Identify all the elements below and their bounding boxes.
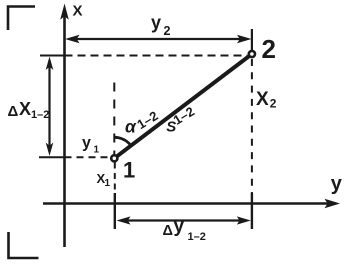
- svg-text:1: 1: [123, 158, 135, 183]
- svg-text:y: y: [174, 216, 185, 237]
- svg-text:X: X: [256, 89, 269, 110]
- svg-text:Δ: Δ: [8, 103, 19, 120]
- svg-text:1–2: 1–2: [188, 231, 206, 243]
- svg-text:Δ: Δ: [163, 223, 173, 239]
- svg-text:1: 1: [94, 145, 100, 156]
- svg-text:X: X: [73, 3, 83, 20]
- svg-text:2: 2: [270, 97, 277, 111]
- svg-text:1: 1: [105, 178, 111, 189]
- svg-text:X: X: [19, 99, 31, 119]
- svg-text:y: y: [82, 134, 91, 151]
- svg-text:y: y: [151, 13, 161, 33]
- svg-text:1–2: 1–2: [31, 109, 49, 121]
- svg-text:y: y: [331, 173, 343, 195]
- svg-text:2: 2: [164, 24, 171, 38]
- svg-text:2: 2: [262, 34, 276, 64]
